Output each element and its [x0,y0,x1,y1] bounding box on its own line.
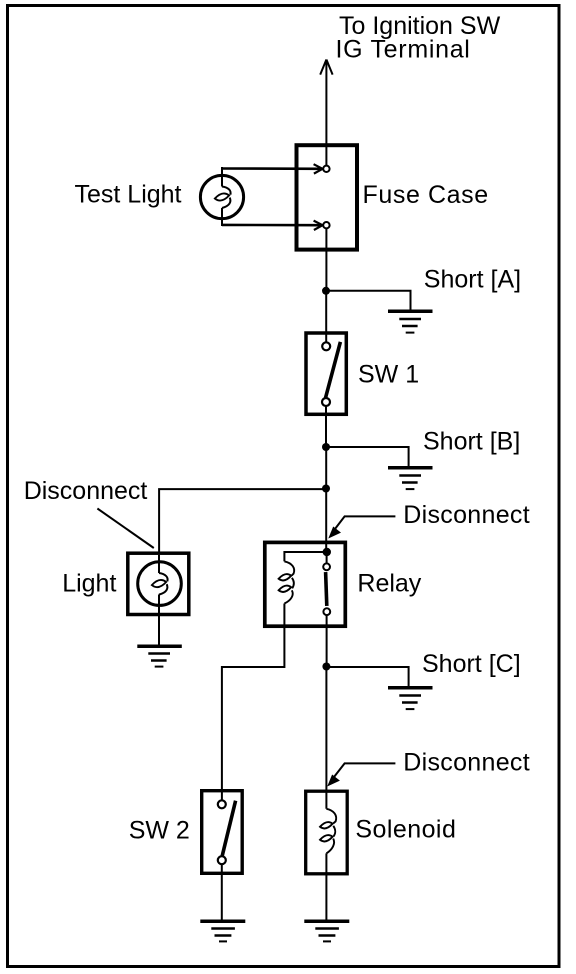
wire: node A to SW1 [325,291,327,342]
lamp box (Light) [128,553,189,614]
svg-text:Fuse Case: Fuse Case [363,181,489,209]
svg-text:Disconnect: Disconnect [24,477,148,505]
switch SW1 bottom contact [322,398,330,406]
wire: short A stub [326,291,411,311]
switch SW2 blade [222,801,235,856]
node B junction dot [322,443,330,451]
arrowhead: solenoid disconnect [327,775,340,787]
wire: test light bottom lead [222,224,322,227]
svg-text:Short [A]: Short [A] [424,266,521,294]
wire: node C to solenoid [325,667,327,809]
node: relay coil junction dot [323,548,331,556]
wire: light to ground [158,616,160,646]
wire: fuse case bottom lead down [325,229,327,291]
wire: branch to light [159,489,326,553]
svg-text:Disconnect: Disconnect [403,501,530,529]
wire: SW2 to ground [221,864,223,921]
ground (short B) [388,468,433,489]
ground (short A) [388,311,433,332]
leader line: left disconnect [97,509,153,549]
svg-text:SW 1: SW 1 [358,360,419,388]
node: disconnect junction dot [322,485,330,493]
relay contact bottom circle [323,608,330,615]
switch SW2 bottom contact [218,856,226,864]
wire: coil top connection [284,552,326,561]
lamp DS2 [138,555,182,616]
wire: SW1 to node B [325,406,327,447]
switch SW1 box [306,333,346,414]
svg-text:Relay: Relay [357,570,421,598]
svg-text:Light: Light [62,570,116,598]
ground (solenoid) [304,921,349,941]
svg-text:IG Terminal: IG Terminal [336,35,471,63]
fuse case bottom terminal arrow [314,221,323,230]
switch SW1 blade [325,342,340,398]
leader line: relay disconnect [332,516,396,533]
fuse case top terminal circle [323,166,329,172]
relay K1 box [265,542,346,626]
ground (short C) [388,688,433,709]
svg-text:Solenoid: Solenoid [355,816,456,844]
node C junction dot [322,663,330,671]
wire: node B to relay [325,447,327,552]
wire: relay coil down and over to SW2 [222,604,285,801]
wire: relay contact link [326,556,328,564]
svg-text:Disconnect: Disconnect [403,748,530,776]
relay blade [326,572,327,606]
wire: relay switch to node C [326,615,328,666]
svg-text:Short [B]: Short [B] [423,428,520,456]
ground (light) [137,646,182,666]
fuse case top terminal arrow [314,164,323,173]
fuse case F1 box [297,145,358,249]
switch SW1 top contact [322,342,330,350]
wire: short C stub [326,667,408,688]
node A junction dot [322,287,330,295]
fuse case bottom terminal circle [323,222,329,228]
relay contact top circle [323,563,330,570]
switch SW2 box [202,791,243,874]
solenoid coil [320,809,336,854]
test light lamp DS1 [200,167,243,226]
switch SW2 top contact [218,800,226,808]
solenoid L1 box [306,791,348,874]
svg-text:Short [C]: Short [C] [422,650,521,678]
relay coil [279,561,295,603]
svg-text:Test Light: Test Light [75,180,182,208]
ground (SW2) [200,921,245,941]
wire: test light top lead [222,167,322,170]
arrowhead: relay disconnect [328,527,341,539]
wire: main feed up-arrow to ignition [320,60,332,166]
wire: solenoid to ground [325,853,327,921]
wire: short B stub [326,447,409,468]
leader line: solenoid disconnect [331,763,396,781]
svg-text:SW 2: SW 2 [129,816,190,844]
